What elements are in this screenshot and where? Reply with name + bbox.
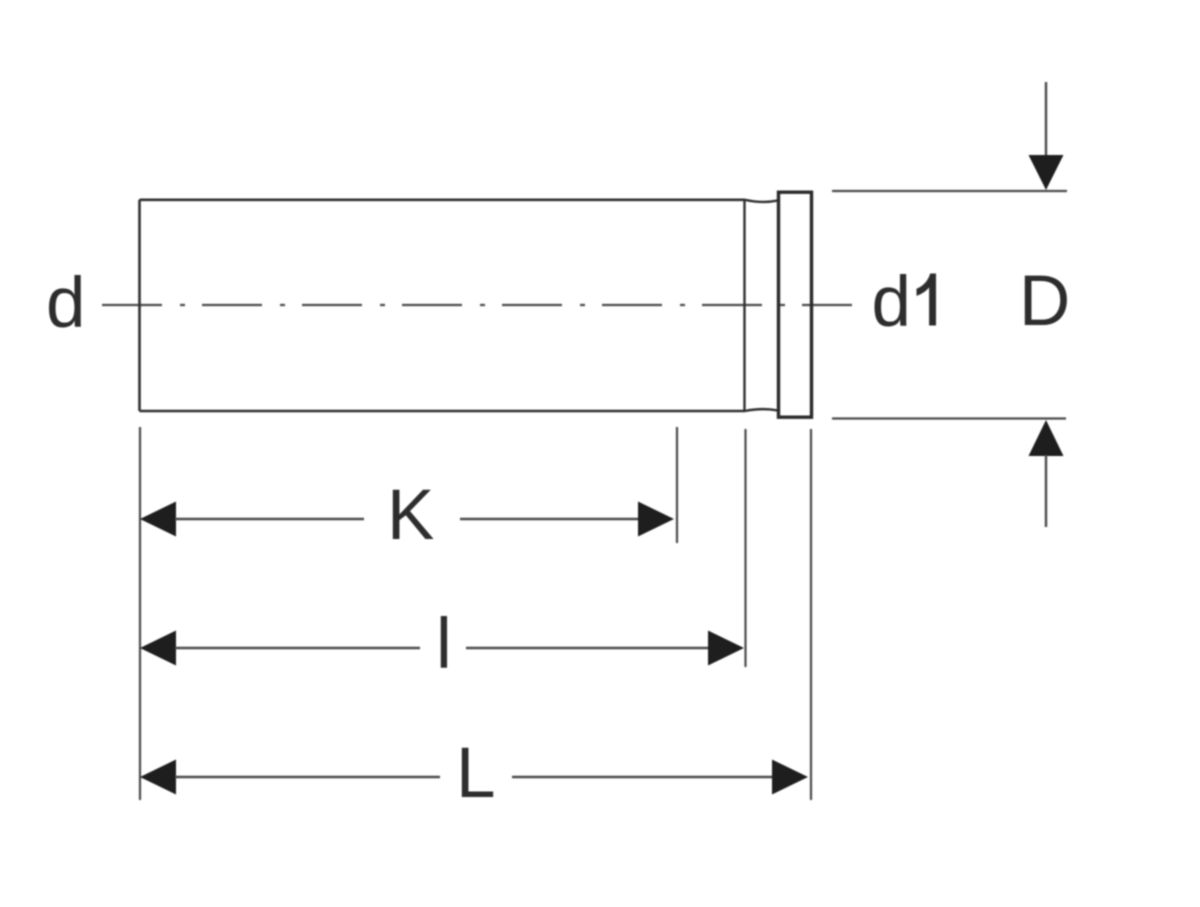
spigot neck top edge [745,200,778,202]
K dimension left arrowhead [140,502,176,537]
K dimension line left segment [175,518,364,520]
L dimension line left segment [175,776,440,778]
svg-text:d: d [46,264,86,343]
centre line (dash-dot axis d–d1) [102,304,852,306]
K dimension line right segment [460,518,639,520]
svg-text:l: l [436,605,452,684]
svg-text:L: L [456,734,496,813]
D dimension bottom line [832,417,1066,419]
L dimension right arrowhead [772,760,808,795]
left extension line [139,427,141,800]
svg-text:d: d [872,263,912,342]
l right extension line [744,429,746,667]
K right extension line [676,427,678,543]
socket collar rim [779,192,812,417]
l dimension left arrowhead [140,631,176,666]
svg-text:K: K [387,476,434,555]
L dimension line right segment [512,776,772,778]
L dimension left arrowhead [140,760,176,795]
D dimension top line [832,190,1067,192]
D dimension bottom arrowhead [1029,420,1064,456]
spigot neck bottom edge [745,409,778,411]
L right extension line [810,429,812,800]
pipe body outline [140,200,746,411]
pipe end joint line [743,199,745,412]
l dimension right arrowhead [708,631,744,666]
l dimension line right segment [466,647,709,649]
svg-text:D: D [1019,262,1070,341]
D dimension top arrowhead [1029,155,1064,190]
D dimension bottom arrow shaft [1045,455,1047,527]
K dimension right arrowhead [638,502,674,537]
l dimension line left segment [175,647,420,649]
D dimension top arrow shaft [1045,82,1047,158]
